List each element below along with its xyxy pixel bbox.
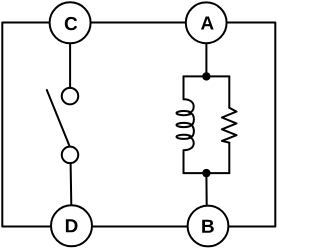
inductor L1 coil turns: [177, 99, 194, 150]
wire switch to D: [70, 163, 73, 206]
node B circle: [188, 206, 229, 247]
node A circle: [186, 2, 227, 43]
wire bottom junction to B: [205, 173, 207, 205]
label A: [201, 17, 214, 30]
node C circle: [50, 2, 91, 43]
switch S1 lever: [47, 90, 70, 146]
wire outer loop frame: [2, 23, 275, 227]
junction dot top: [202, 72, 210, 80]
label B: [202, 220, 214, 233]
wire top rail to inductor: [183, 76, 185, 99]
wire top rail to resistor: [228, 76, 230, 107]
wire top rail of parallel branch: [184, 75, 230, 77]
node D circle: [51, 205, 92, 246]
junction dot bottom: [202, 169, 210, 177]
wire bottom rail of parallel branch: [184, 172, 230, 174]
label D: [66, 219, 78, 232]
wire A to top junction: [205, 44, 207, 76]
wire resistor to bottom rail: [228, 143, 230, 173]
resistor R1 zigzag: [222, 108, 237, 143]
label C: [65, 17, 77, 30]
switch S1 top terminal: [62, 88, 79, 105]
switch S1 bottom terminal: [62, 147, 79, 164]
wire inductor to bottom rail: [183, 150, 185, 173]
wire C to switch: [69, 44, 71, 89]
